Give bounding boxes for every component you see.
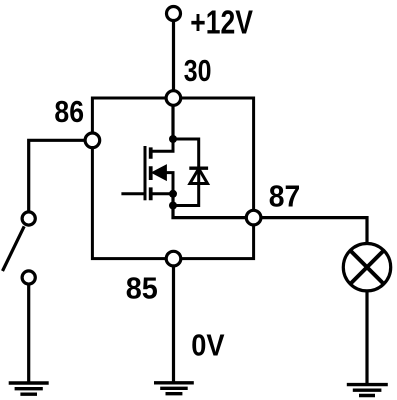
wire node 86 to switch [29,140,93,212]
ground (right) [347,385,388,396]
diode D1 [173,139,208,206]
wire switch to ground [27,284,30,383]
switch S1 [3,212,36,284]
svg-text:87: 87 [269,178,301,213]
svg-text:86: 86 [54,94,84,129]
junction drain-diode [169,135,177,143]
ground (left) [9,383,49,394]
node 87 [246,210,261,225]
svg-text:30: 30 [184,53,212,88]
svg-text:+12V: +12V [190,3,253,40]
svg-text:85: 85 [126,270,158,305]
wire node 30 to drain junction [171,105,174,139]
wire node 87 to lamp [261,218,367,244]
node 30 [166,91,181,106]
wire +12V terminal to node 30 [172,21,175,99]
wire source to node 87 [173,194,254,218]
wire lamp to ground [365,291,368,385]
lamp E1 [343,244,390,291]
MOSFET Q1 [121,139,173,200]
relay body outline [92,98,253,259]
wire node 85 to ground [172,266,175,383]
junction diode-anode [169,202,177,210]
terminal +12V [167,7,181,21]
node 85 [166,251,181,266]
node 86 [85,133,100,148]
svg-text:0V: 0V [191,328,225,363]
junction source-body [169,190,177,198]
ground (middle) [154,383,194,394]
